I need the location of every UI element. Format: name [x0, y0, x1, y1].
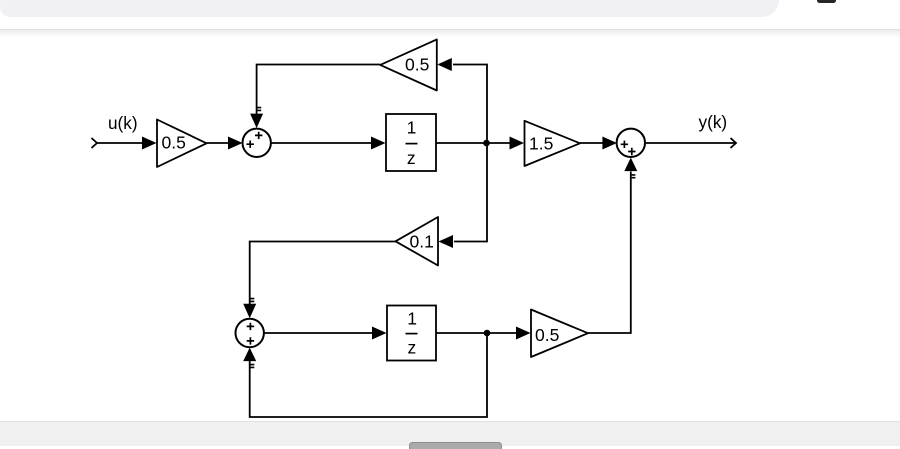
node A junction dot — [483, 140, 490, 147]
svg-text:0.5: 0.5 — [162, 132, 186, 152]
wire delay Z1 to gain G2 through node A — [436, 142, 511, 144]
arrowhead into sum S2 left — [602, 137, 617, 150]
svg-text:y(k): y(k) — [699, 112, 728, 132]
arrowhead into delay Z2 — [372, 327, 387, 340]
arrowhead into sum S3 top (down pointing) — [243, 304, 256, 319]
top-right dark icon sliver — [817, 0, 836, 3]
wire node A up and left into top gain G3 — [453, 65, 487, 144]
delay Z2 unit delay block 1/z — [387, 306, 436, 361]
svg-text:0.1: 0.1 — [410, 231, 434, 251]
tick marks above sum S1 — [257, 108, 261, 111]
svg-text:z: z — [408, 338, 417, 358]
output port chevron y(k) — [731, 138, 737, 148]
wire sum S1 to delay Z1 — [271, 142, 372, 144]
svg-text:1: 1 — [407, 308, 417, 328]
wire input to gain G1 — [97, 142, 143, 144]
gain G5 bottom 0.5 triangle — [531, 310, 588, 358]
toolbar bottom separator line — [0, 29, 900, 30]
sum S3 circle — [236, 319, 264, 347]
tick marks below sum S3 — [251, 365, 255, 368]
svg-text:z: z — [407, 148, 416, 168]
delay Z1 unit delay block 1/z — [386, 114, 436, 171]
arrowhead into gain G2 — [510, 137, 525, 150]
arrowhead into delay Z1 — [371, 137, 386, 150]
wire gain G5 up into sum S2 bottom — [588, 172, 631, 334]
wire gain G2 to sum S2 — [580, 142, 604, 144]
wire top gain G3 output to sum S1 top — [257, 65, 381, 115]
bottom status band — [0, 421, 900, 446]
wire sum S3 to delay Z2 — [264, 332, 373, 334]
arrowhead into top gain G3 (left pointing) — [437, 58, 452, 71]
gain G2 1.5 triangle — [525, 121, 581, 166]
gain G3 top 0.5 triangle (left pointing) — [380, 39, 437, 90]
svg-text:1.5: 1.5 — [529, 133, 553, 153]
svg-text:u(k): u(k) — [108, 113, 138, 133]
tick marks above sum S3 — [251, 299, 255, 302]
tick marks below sum S2 — [632, 175, 636, 178]
arrowhead into gain G5 — [516, 327, 531, 340]
top chrome gray panel (bottom of overlying sheet) — [0, 0, 779, 17]
arrowhead into gain G4 (left pointing) — [439, 235, 454, 248]
node B junction dot — [484, 330, 491, 337]
sum S1 circle — [243, 129, 271, 157]
svg-text:0.5: 0.5 — [405, 55, 429, 75]
separator soft shadow — [0, 30, 900, 38]
svg-text:1: 1 — [407, 118, 417, 138]
arrowhead into sum S2 bottom (up pointing) — [624, 158, 637, 172]
wire gain G1 to sum S1 — [207, 142, 229, 144]
svg-text:0.5: 0.5 — [535, 325, 559, 345]
wire gain G4 output to sum S3 top — [250, 242, 396, 305]
gain G1 0.5 triangle — [157, 120, 207, 168]
arrowhead into sum S3 bottom (up pointing) — [243, 348, 256, 362]
input port chevron u(k) — [92, 138, 98, 148]
wire sum S2 to output y(k) — [646, 142, 735, 144]
horizontal scrollbar thumb — [409, 442, 502, 449]
wire node B feedback loop to sum S3 bottom — [250, 333, 487, 417]
arrowhead into sum S1 top (down pointing) — [250, 114, 263, 129]
wire node A down and left into gain G4 — [454, 143, 487, 242]
wire delay Z2 to gain G5 through node B — [436, 332, 517, 334]
arrowhead into sum S1 left — [228, 137, 243, 150]
gain G4 0.1 triangle (left pointing) — [396, 217, 439, 266]
arrowhead into gain G1 — [142, 137, 157, 150]
sum S2 circle — [617, 129, 645, 157]
